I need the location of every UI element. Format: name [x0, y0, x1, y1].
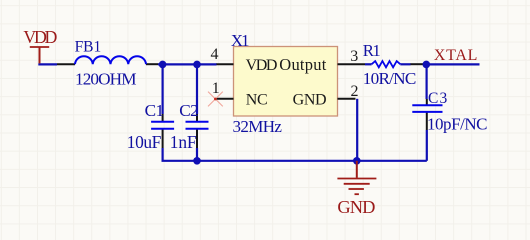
svg-text:C1: C1: [145, 101, 165, 120]
svg-text:GND: GND: [337, 197, 375, 217]
svg-text:VDD: VDD: [23, 27, 57, 47]
svg-text:2: 2: [351, 83, 359, 100]
svg-text:R1: R1: [363, 41, 381, 60]
svg-text:32MHz: 32MHz: [233, 117, 283, 136]
svg-text:FB1: FB1: [75, 39, 102, 56]
svg-text:GND: GND: [293, 91, 327, 108]
svg-text:VDD: VDD: [246, 57, 278, 74]
svg-text:10pF/NC: 10pF/NC: [427, 115, 488, 134]
svg-text:1: 1: [212, 80, 220, 97]
svg-text:NC: NC: [246, 91, 268, 108]
svg-text:C2: C2: [179, 101, 199, 120]
svg-text:1nF: 1nF: [170, 132, 197, 152]
svg-text:Output: Output: [279, 55, 326, 74]
svg-text:10R/NC: 10R/NC: [363, 69, 417, 88]
svg-text:10uF: 10uF: [127, 132, 162, 152]
svg-text:C3: C3: [428, 90, 448, 107]
svg-text:4: 4: [211, 46, 219, 63]
svg-text:3: 3: [350, 48, 358, 65]
svg-text:XTAL: XTAL: [434, 47, 478, 64]
svg-text:120OHM: 120OHM: [75, 70, 137, 89]
svg-text:X1: X1: [231, 31, 250, 50]
